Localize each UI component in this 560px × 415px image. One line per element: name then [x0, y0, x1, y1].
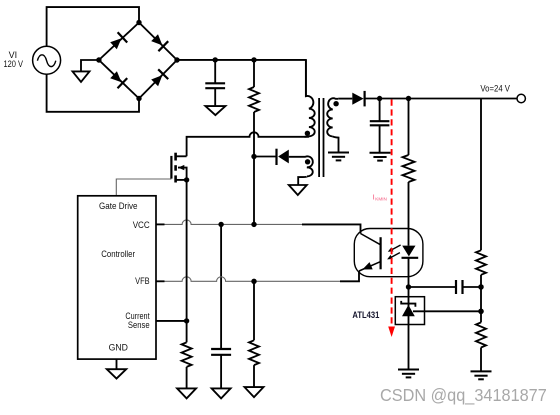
diode opto LED — [402, 246, 419, 258]
wire AC top to bridge top — [47, 7, 139, 46]
wire current sense — [156, 320, 187, 322]
wire VFB rail — [156, 280, 165, 282]
node bridge bottom — [136, 96, 141, 101]
wire AC bottom to bridge bottom — [47, 74, 139, 112]
node current sense — [184, 318, 189, 323]
node C1 tap — [213, 57, 218, 62]
node output bias tap — [406, 96, 411, 101]
ground R2 — [245, 387, 264, 397]
diode D6 output rectifier — [352, 93, 363, 105]
wire bridge edges — [99, 23, 177, 99]
wire ATL431 cathode — [408, 287, 410, 297]
op-amp U3 ATL431 — [395, 297, 424, 325]
ground bridge — [73, 71, 90, 82]
ground ATL431 earth — [398, 369, 419, 371]
svg-text:GND: GND — [109, 341, 129, 352]
node bridge left — [96, 57, 101, 62]
svg-text:Sense: Sense — [128, 319, 150, 330]
resistor R1 startup — [253, 60, 255, 87]
svg-text:KMIN: KMIN — [375, 196, 386, 201]
capacitor C1 bulk — [214, 60, 216, 83]
ground secondary earth — [328, 152, 349, 154]
transistor Q1 MOSFET — [171, 153, 186, 183]
resistor R4 feedback top — [476, 250, 486, 274]
svg-text:VFB: VFB — [135, 275, 150, 286]
ground aux — [289, 185, 307, 195]
op-amp U2 optocoupler body — [354, 229, 423, 277]
resistor R6 opto bias — [408, 99, 410, 156]
diode D2 bridge top-right — [151, 34, 162, 45]
diode D3 bridge left-bottom — [110, 71, 121, 82]
capacitor C2 VCC bypass — [220, 224, 222, 349]
wire aux node down to VCC rail — [253, 157, 255, 225]
ground C3 earth — [370, 152, 391, 154]
diode D4 bridge bottom-right — [151, 75, 162, 86]
node ref junction — [478, 309, 483, 314]
svg-text:120 V: 120 V — [4, 58, 24, 69]
wire ATL431 anode — [408, 325, 410, 370]
wire secondary to diode — [338, 98, 352, 100]
diode D5 aux rectifier — [254, 156, 277, 158]
node R1 tap — [251, 57, 256, 62]
node T1 primary phase dot — [305, 131, 310, 136]
wire VCC rail — [156, 223, 165, 225]
svg-text:CSDN @qq_34181877: CSDN @qq_34181877 — [380, 385, 547, 405]
capacitor C4 compensation — [455, 280, 457, 294]
node VCC cap tap — [218, 222, 223, 227]
node opto cathode junction — [406, 284, 411, 289]
inductor T1 secondary — [328, 98, 338, 109]
wire R1 to aux node — [253, 112, 255, 157]
ground C2 — [212, 388, 231, 398]
node R4 bottom — [478, 284, 483, 289]
node bridge top — [136, 20, 141, 25]
wire ATL431 ref — [413, 310, 481, 312]
ground R5 earth — [471, 370, 492, 372]
wire drain to primary — [187, 132, 309, 156]
node aux diode junction — [251, 154, 256, 159]
diode D1 bridge left-top — [110, 38, 121, 49]
terminal Vo — [517, 94, 525, 102]
svg-text:VCC: VCC — [133, 219, 150, 230]
wire gate from controller — [116, 179, 171, 196]
wire opto light arrows — [391, 245, 401, 250]
wire controller GND — [116, 359, 118, 369]
svg-text:ATL431: ATL431 — [352, 310, 379, 320]
AC source VI — [33, 46, 61, 74]
ground C1 — [205, 106, 225, 115]
node output cap tap — [377, 96, 382, 101]
inductor T1 auxiliary — [289, 156, 313, 167]
transistor opto phototransistor — [359, 234, 381, 272]
wire Q1 source down — [186, 180, 188, 343]
svg-text:Gate Drive: Gate Drive — [99, 200, 138, 211]
resistor R2 VFB — [253, 281, 255, 340]
node Q1 source — [184, 177, 189, 182]
wire bridge left to ground — [81, 60, 99, 71]
inductor T1 primary — [306, 60, 313, 109]
svg-text:Vo=24 V: Vo=24 V — [480, 82, 510, 93]
wire HV rail — [177, 60, 306, 97]
op-amp U1 controller box — [78, 196, 156, 359]
wire LED cathode down — [408, 258, 410, 287]
node T1 aux phase dot — [305, 159, 310, 164]
node comp cap right — [478, 284, 483, 289]
node VFB divider tap — [251, 279, 256, 284]
svg-text:Controller: Controller — [101, 248, 135, 259]
transformer T1 core — [318, 98, 320, 177]
resistor R3 current sense — [182, 342, 192, 367]
wire output right rail — [480, 99, 482, 251]
wire output rail — [365, 98, 517, 100]
node bridge right — [174, 57, 179, 62]
node T1 secondary phase dot — [333, 101, 338, 106]
ground R3 — [177, 388, 196, 398]
wire IKMIN dashed annotation — [391, 100, 393, 327]
wire opto to comp cap — [409, 286, 457, 288]
capacitor C3 output — [379, 99, 381, 122]
node VCC aux tap — [251, 222, 256, 227]
node ref — [478, 309, 483, 314]
ground controller — [107, 369, 126, 378]
resistor R5 feedback bottom — [480, 311, 482, 322]
